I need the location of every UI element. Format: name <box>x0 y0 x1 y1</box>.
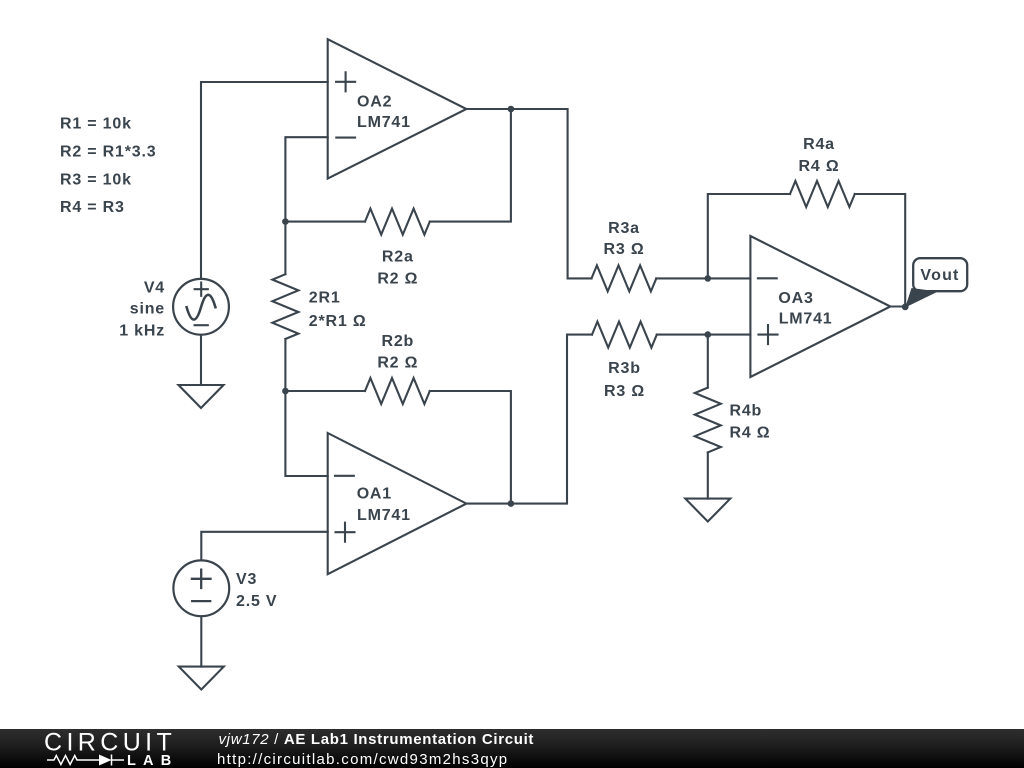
node OA3 inverting junction dot <box>705 275 712 282</box>
ground under V4 <box>179 385 224 408</box>
op-amp OA3 minus input glyph <box>758 277 777 279</box>
wire R3b to OA3 non-inverting input <box>657 334 751 336</box>
op-amp OA2 minus input glyph <box>336 137 355 139</box>
voltage source V4 circle <box>173 279 229 335</box>
wire 2R1 bottom lead <box>284 339 286 391</box>
resistor R2a <box>365 209 430 235</box>
node Vout junction dot <box>902 304 909 311</box>
wire R2a right lead up to OA2 output node <box>430 109 511 222</box>
wire 2R1 top lead <box>284 222 286 275</box>
svg-text:LAB: LAB <box>127 753 178 768</box>
wire V4 to ground <box>200 335 202 385</box>
wire OA1 output to R3b <box>466 335 592 504</box>
wire R3a to OA3 inverting input <box>656 277 750 279</box>
V4 sine waveform <box>187 295 216 320</box>
op-amp OA1 minus input glyph <box>335 475 354 477</box>
op-amp OA3 triangle <box>750 236 890 377</box>
wire R4a right lead down to output node <box>855 194 905 307</box>
resistor R3b <box>592 322 657 348</box>
V4 plus polarity mark <box>195 283 208 296</box>
CircuitLab logo diode symbol <box>99 755 112 766</box>
svg-text:http://circuitlab.com/cwd93m2h: http://circuitlab.com/cwd93m2hs3qyp <box>217 751 508 768</box>
Vout flag box <box>913 258 967 291</box>
wire V4 to OA2 non-inverting input <box>201 82 328 279</box>
Vout flag tail <box>905 288 938 308</box>
node OA1 output junction dot <box>508 500 515 507</box>
ground under V3 <box>179 667 224 690</box>
wire R2b right lead down to OA1 output node <box>430 391 511 504</box>
V3 minus polarity mark <box>192 600 210 602</box>
wire R2b left lead from node B <box>285 390 365 392</box>
resistor R2b <box>365 378 430 404</box>
wire feedback node to R4a <box>708 194 790 278</box>
wire OA1 inverting input to node B <box>285 391 327 476</box>
svg-text:vjw172 / AE Lab1 Instrumentati: vjw172 / AE Lab1 Instrumentation Circuit <box>219 731 535 748</box>
CircuitLab logo resistor-diode line <box>47 756 99 765</box>
wire V3 to OA1 non-inverting input <box>201 532 327 561</box>
node OA3 non-inverting junction dot <box>705 331 712 338</box>
resistor 2R1 <box>272 274 298 339</box>
op-amp OA2 plus input glyph <box>336 72 355 91</box>
wire R2a left lead from node A <box>285 221 365 223</box>
node A junction dot <box>282 218 289 225</box>
resistor R4a <box>790 181 855 207</box>
op-amp OA1 plus input glyph <box>336 523 355 542</box>
op-amp OA1 triangle <box>328 433 467 574</box>
wire OA3 output <box>890 305 905 307</box>
ground under R4b <box>685 499 730 522</box>
voltage source V3 circle <box>173 560 229 616</box>
V3 plus polarity mark <box>192 570 211 588</box>
footer bar <box>0 729 1024 768</box>
wire V3 to ground <box>200 617 202 667</box>
node B junction dot <box>282 388 289 395</box>
node OA2 output junction dot <box>508 106 515 113</box>
wire R4b to ground <box>707 452 709 498</box>
wire OA2 output to R3a <box>466 109 591 278</box>
op-amp OA2 triangle <box>328 39 467 178</box>
wire node C down to R4b <box>707 335 709 388</box>
resistor R4b <box>695 388 721 453</box>
op-amp OA3 plus input glyph <box>759 325 778 344</box>
V4 minus polarity mark <box>195 324 208 326</box>
resistor R3a <box>592 265 657 291</box>
wire OA2 inverting input to node A <box>285 137 327 221</box>
